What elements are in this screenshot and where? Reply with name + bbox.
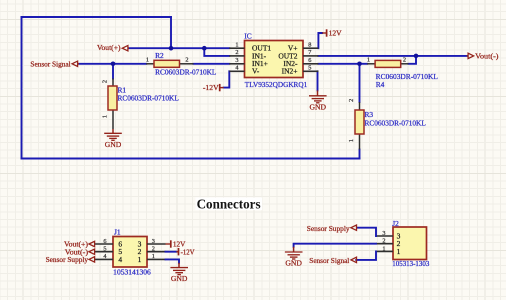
wire feedback loop left segment — [21, 17, 23, 159]
wire J1 pin1 to GND — [166, 259, 180, 262]
svg-text:2: 2 — [348, 99, 355, 102]
svg-text:GND: GND — [285, 259, 302, 268]
op-amp IC TLV9352 body — [245, 41, 304, 78]
op-amp pin 7 — [303, 55, 318, 57]
op-amp pin 2 — [229, 55, 244, 57]
svg-text:RC0603DR-0710KL: RC0603DR-0710KL — [118, 94, 180, 103]
wire Vout(+) net horizontal — [129, 47, 229, 49]
wire J2 pin3 to Sensor Supply — [357, 228, 376, 236]
svg-text:GND: GND — [105, 140, 122, 149]
wire loop drop to Vout(+) net — [170, 17, 172, 48]
svg-text:5: 5 — [308, 64, 311, 71]
port Vout(+) arrow at J1 — [89, 241, 95, 246]
connector J1 pin 4 (left) — [95, 258, 114, 260]
resistor R2 body — [154, 60, 180, 67]
svg-text:IN2+: IN2+ — [282, 67, 298, 76]
wire R4 to OUT2 net — [409, 56, 417, 64]
connector J2 body — [393, 227, 427, 260]
svg-text:J1: J1 — [114, 228, 121, 237]
svg-text:2: 2 — [185, 57, 188, 64]
port Vout(-) arrow — [467, 53, 474, 58]
wire J2 pin2 to GND — [294, 244, 376, 247]
wire OUT2 to Vout(-) — [318, 55, 466, 57]
resistor R3 pin 2 — [359, 102, 361, 110]
connector J2 pin 2 — [376, 243, 393, 245]
svg-text:1: 1 — [348, 139, 355, 142]
wire V+ pin to 12V — [318, 33, 322, 48]
junction node feedback jog — [202, 46, 207, 51]
wire feedback loop bottom segment — [22, 158, 360, 160]
port Vout(+) arrow — [122, 46, 129, 51]
resistor R1 body — [108, 86, 117, 110]
port Sensor Signal arrow at J2 — [351, 257, 357, 262]
connector J2 pin 1 — [376, 250, 393, 252]
svg-text:1: 1 — [382, 245, 385, 252]
connector J1 pin 6 (left) — [95, 243, 114, 245]
port Sensor Supply arrow at J2 — [351, 225, 357, 230]
wire node to R4 — [360, 63, 368, 65]
resistor R4 pin 1 — [367, 63, 375, 65]
wire R2 to IN1+ — [194, 63, 230, 65]
port Sensor Signal arrow — [72, 61, 79, 66]
op-amp pin 8 — [303, 47, 318, 49]
svg-text:GND: GND — [310, 102, 327, 111]
svg-text:6: 6 — [308, 57, 311, 64]
svg-text:Vout(+): Vout(+) — [97, 43, 121, 52]
svg-text:J2: J2 — [392, 219, 399, 228]
resistor R1 pin 2 — [112, 79, 114, 87]
wire J2 pin1 to Sensor Signal — [356, 251, 376, 260]
ground stem under IC — [317, 90, 319, 95]
wire R1 top drop — [112, 64, 114, 79]
svg-text:7: 7 — [308, 49, 311, 56]
connector J1 pin 1 (right) — [147, 258, 166, 260]
svg-text:IC: IC — [244, 32, 251, 41]
ground symbol under R1 — [104, 133, 122, 140]
op-amp pin 6 — [303, 63, 318, 65]
ground symbol at J1 — [170, 268, 188, 275]
svg-text:-12V: -12V — [181, 247, 196, 256]
junction node R4/OUT2 — [414, 54, 419, 59]
svg-text:3: 3 — [152, 238, 155, 245]
svg-text:2: 2 — [152, 246, 155, 253]
svg-text:1: 1 — [367, 57, 370, 64]
svg-text:V-: V- — [252, 67, 260, 76]
connector J1 pin 2 (right) — [147, 251, 166, 253]
svg-text:RC0603DR-0710KL: RC0603DR-0710KL — [155, 68, 217, 77]
wire feedback loop riser to R3 — [359, 150, 361, 159]
op-amp pin 1 — [229, 47, 244, 49]
resistor R1 pin 1 — [112, 110, 114, 129]
wire IN2- to node — [318, 63, 359, 65]
svg-text:8: 8 — [308, 41, 311, 48]
port Sensor Supply arrow at J1 — [89, 257, 95, 262]
svg-text:1: 1 — [152, 253, 155, 260]
svg-text:R4: R4 — [376, 80, 385, 89]
svg-text:RC0603DR-0710KL: RC0603DR-0710KL — [365, 118, 427, 127]
port Vout(-) arrow at J1 — [89, 249, 95, 254]
connector J1 pin 3 (right) — [147, 243, 166, 245]
svg-text:-12V: -12V — [203, 83, 219, 92]
svg-text:4: 4 — [118, 255, 122, 264]
svg-text:1: 1 — [102, 115, 109, 118]
junction node loop/Vout(+) — [169, 46, 174, 51]
resistor R3 pin 1 — [359, 134, 361, 150]
wire feedback loop top segment — [22, 16, 172, 18]
op-amp pin 4 — [229, 70, 244, 72]
svg-text:Connectors: Connectors — [197, 198, 262, 213]
svg-text:Sensor Supply: Sensor Supply — [46, 255, 89, 264]
resistor R2 pin 2 — [180, 63, 194, 65]
svg-text:TLV9352QDGKRQ1: TLV9352QDGKRQ1 — [245, 80, 308, 89]
svg-text:1: 1 — [235, 41, 238, 48]
ground symbol at J2 — [285, 252, 303, 259]
wire V- pin to -12V — [224, 71, 230, 87]
ground stem under R1 — [112, 129, 114, 133]
op-amp pin 3 — [229, 63, 244, 65]
svg-text:Vout(-): Vout(-) — [475, 52, 499, 61]
power -12V bar — [220, 84, 224, 91]
ground stem at J2 — [293, 247, 295, 252]
svg-text:6: 6 — [103, 238, 106, 245]
power -12V bar at J1 — [176, 248, 178, 255]
svg-text:2: 2 — [235, 49, 238, 56]
section title Connectors — [196, 198, 263, 213]
svg-text:1053141306: 1053141306 — [113, 268, 151, 277]
resistor R4 body — [375, 60, 401, 67]
connector J1 pin 5 (left) — [95, 251, 114, 253]
wire IN2+ pin to GND — [317, 71, 319, 90]
junction node R1/Sensor Signal — [111, 62, 116, 67]
svg-text:2: 2 — [102, 80, 109, 83]
resistor R2 pin 1 — [146, 63, 154, 65]
junction node R3/R4/IN2- — [357, 62, 362, 67]
ground symbol under IC — [309, 96, 327, 103]
power +12V bar — [322, 29, 326, 36]
wire jog OUT1 to IN1- — [204, 48, 229, 56]
svg-text:Sensor Supply: Sensor Supply — [307, 224, 350, 233]
connector J2 pin 3 — [376, 235, 393, 237]
svg-text:1: 1 — [138, 255, 142, 264]
svg-text:2: 2 — [403, 57, 406, 64]
svg-text:1: 1 — [146, 57, 149, 64]
svg-text:1: 1 — [397, 247, 401, 256]
resistor R3 body — [355, 110, 364, 134]
resistor R4 pin 2 — [401, 63, 409, 65]
svg-text:Sensor Signal: Sensor Signal — [309, 256, 349, 265]
svg-text:105313-1303: 105313-1303 — [392, 259, 429, 268]
svg-text:3: 3 — [382, 230, 385, 237]
svg-text:5: 5 — [103, 246, 106, 253]
wire J1 pin2 to -12V — [166, 251, 177, 253]
svg-text:3: 3 — [235, 57, 238, 64]
wire node down to R3 — [359, 64, 361, 102]
svg-text:RC0603DR-0710KL: RC0603DR-0710KL — [376, 72, 439, 81]
svg-text:R2: R2 — [155, 51, 164, 60]
power +12V bar at J1 — [166, 240, 171, 247]
svg-text:2: 2 — [382, 238, 385, 245]
wire Sensor Signal to R2 — [79, 63, 146, 65]
ground stem at J1 — [178, 263, 180, 268]
connector J1 body — [113, 237, 147, 268]
svg-text:GND: GND — [171, 274, 188, 283]
op-amp pin 5 — [303, 70, 318, 72]
svg-text:12V: 12V — [329, 29, 343, 38]
svg-text:Sensor Signal: Sensor Signal — [30, 60, 70, 69]
